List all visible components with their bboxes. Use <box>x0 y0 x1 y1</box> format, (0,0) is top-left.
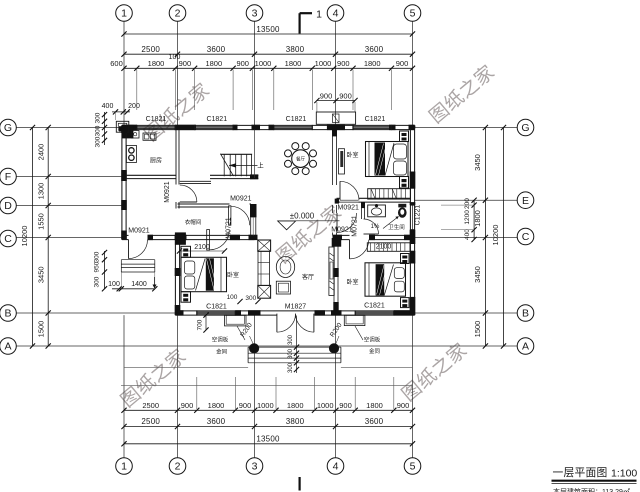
svg-text:G: G <box>521 122 529 134</box>
svg-text:1550: 1550 <box>37 213 46 230</box>
stairs <box>223 154 225 176</box>
axis4 wall <box>332 130 334 185</box>
svg-text:C1821: C1821 <box>364 302 385 309</box>
svg-text:±0.000: ±0.000 <box>290 212 315 221</box>
left small dims 300 <box>104 112 106 145</box>
svg-text:300: 300 <box>245 295 256 302</box>
nightstands bedroom2 <box>400 131 409 142</box>
svg-text:200: 200 <box>128 103 140 110</box>
left steps dims <box>104 251 106 289</box>
svg-text:M0921: M0921 <box>128 228 150 235</box>
svg-text:400: 400 <box>464 229 471 240</box>
svg-text:700: 700 <box>197 319 204 330</box>
svg-text:300: 300 <box>95 136 102 147</box>
bottom dimension rows <box>124 409 413 411</box>
svg-text:300: 300 <box>95 112 102 123</box>
svg-text:3600: 3600 <box>207 45 226 54</box>
svg-text:1: 1 <box>121 461 127 473</box>
bay dimension 900 900 <box>317 100 355 102</box>
svg-text:4: 4 <box>333 8 339 20</box>
svg-text:金同: 金同 <box>369 347 381 355</box>
svg-text:900: 900 <box>320 91 333 100</box>
door M0921 bedroom2 (E wall) <box>339 181 341 200</box>
svg-text:上: 上 <box>257 161 264 170</box>
svg-text:900: 900 <box>179 59 192 68</box>
svg-text:一层平面图: 一层平面图 <box>553 466 608 479</box>
dining table <box>292 150 310 168</box>
svg-text:卧室: 卧室 <box>346 278 358 286</box>
aircon slab right <box>344 315 365 325</box>
axis4 lower wall <box>333 240 335 311</box>
aircon slab left <box>225 315 247 326</box>
svg-text:1500: 1500 <box>473 321 482 338</box>
top-left dims 400 200 <box>112 111 130 113</box>
svg-text:C1821: C1821 <box>286 116 307 123</box>
door M0921 kitchen (x2 wall) <box>180 201 197 203</box>
svg-text:300: 300 <box>288 348 294 359</box>
svg-text:空调板: 空调板 <box>212 336 229 344</box>
right dimension columns <box>473 200 475 239</box>
bay box at axis 4 <box>316 112 355 124</box>
svg-text:空调板: 空调板 <box>364 336 381 344</box>
flue box top-left <box>116 121 129 132</box>
left dimension columns <box>47 128 49 347</box>
svg-text:M0921: M0921 <box>164 181 171 203</box>
svg-text:C1821: C1821 <box>146 116 167 123</box>
kitchen right wall <box>175 130 177 185</box>
svg-text:1800: 1800 <box>148 59 165 68</box>
svg-text:C1821: C1821 <box>365 116 386 123</box>
svg-text:2100: 2100 <box>194 244 210 251</box>
svg-text:1%: 1% <box>371 224 380 230</box>
svg-text:900: 900 <box>239 401 252 410</box>
svg-text:3600: 3600 <box>207 417 226 426</box>
svg-text:B: B <box>522 308 529 320</box>
svg-text:金同: 金同 <box>216 348 228 356</box>
desk bedroom2 <box>339 149 345 174</box>
svg-text:C: C <box>522 231 530 243</box>
svg-text:5: 5 <box>410 8 416 20</box>
svg-text:M0721: M0721 <box>352 215 359 237</box>
section mark bottom <box>299 477 301 491</box>
svg-text:D: D <box>4 200 12 212</box>
svg-text:G: G <box>4 122 12 134</box>
svg-text:1800: 1800 <box>205 59 222 68</box>
svg-text:2400: 2400 <box>37 144 46 161</box>
svg-text:1800: 1800 <box>208 401 225 410</box>
svg-text:1800: 1800 <box>473 210 482 227</box>
svg-text:1300: 1300 <box>37 183 46 200</box>
svg-text:300: 300 <box>94 276 101 287</box>
svg-text:3: 3 <box>252 8 258 20</box>
svg-text:13500: 13500 <box>256 435 280 444</box>
door M1827 main entrance <box>276 314 278 333</box>
top wall + C1821 windows <box>122 124 415 126</box>
svg-text:C1821: C1821 <box>206 303 227 310</box>
svg-text:1800: 1800 <box>287 401 304 410</box>
ground line 1 <box>124 366 248 368</box>
svg-text:M1827: M1827 <box>285 303 307 310</box>
bed bottom-right bedroom <box>365 263 406 296</box>
svg-text:1500: 1500 <box>37 321 46 338</box>
svg-text:C1821: C1821 <box>206 116 227 123</box>
svg-text:卧室: 卧室 <box>346 151 358 159</box>
outside steps left <box>121 259 155 261</box>
bed bottom-left bedroom <box>181 257 227 291</box>
bottom wall + windows <box>175 310 414 312</box>
svg-text:1200: 1200 <box>464 210 471 225</box>
axis grid lines <box>123 22 125 126</box>
top dimension rows <box>124 33 413 35</box>
svg-text:1000: 1000 <box>315 59 332 68</box>
axis3 wall D-C <box>250 204 257 217</box>
svg-text:1:100: 1:100 <box>611 468 637 480</box>
svg-text:M0921: M0921 <box>337 204 359 211</box>
svg-text:2500: 2500 <box>141 45 160 54</box>
svg-text:1800: 1800 <box>285 59 302 68</box>
svg-text:卧室: 卧室 <box>227 271 239 279</box>
toilet fixtures <box>368 205 386 217</box>
svg-text:300: 300 <box>288 334 294 345</box>
svg-text:厨房: 厨房 <box>150 157 162 165</box>
svg-text:B: B <box>4 308 11 320</box>
section mark top <box>299 13 301 33</box>
door M0921 bedroom3 (C wall) <box>349 240 351 259</box>
kitchen stove and sink <box>126 145 136 162</box>
door M0921 corridor (axis4 wall) <box>336 213 338 233</box>
svg-text:900: 900 <box>396 59 409 68</box>
svg-text:2: 2 <box>175 461 181 473</box>
svg-text:A: A <box>4 341 11 353</box>
svg-text:C: C <box>4 233 12 245</box>
svg-text:A: A <box>522 341 529 353</box>
svg-text:2100: 2100 <box>376 243 392 250</box>
left lower wall axis2 <box>174 235 176 315</box>
svg-text:3450: 3450 <box>37 266 46 283</box>
svg-text:900: 900 <box>339 401 352 410</box>
svg-text:M0921: M0921 <box>331 227 353 234</box>
porch slab and steps <box>248 346 341 348</box>
door M0921 cloakroom (D wall) <box>229 206 231 225</box>
door M0721 toilet <box>364 233 379 235</box>
F wall + landing strip <box>126 174 176 176</box>
svg-text:2: 2 <box>175 8 181 20</box>
svg-text:3600: 3600 <box>365 45 384 54</box>
svg-text:2500: 2500 <box>142 401 159 410</box>
svg-text:1000: 1000 <box>317 401 334 410</box>
porch column right <box>329 344 338 353</box>
dim 700 left <box>205 315 207 330</box>
porch step dims 300 <box>296 316 298 374</box>
svg-text:300: 300 <box>288 362 294 373</box>
svg-text:400: 400 <box>102 103 114 110</box>
svg-text:M0921: M0921 <box>230 196 252 203</box>
right wall axis5 + C1221 window <box>409 125 411 315</box>
C axis wall <box>122 234 129 236</box>
svg-text:E: E <box>522 195 529 207</box>
svg-text:100: 100 <box>108 281 120 288</box>
svg-text:4: 4 <box>333 461 339 473</box>
svg-text:900: 900 <box>236 59 249 68</box>
svg-text:600: 600 <box>110 59 123 68</box>
svg-text:100: 100 <box>169 54 181 61</box>
living room sofa and table <box>258 240 271 251</box>
svg-text:餐厅: 餐厅 <box>296 156 305 163</box>
nightstands bedroom1 <box>181 246 191 257</box>
svg-text:客厅: 客厅 <box>302 273 314 281</box>
nightstands bedroom3 <box>401 254 410 264</box>
svg-text:900: 900 <box>397 401 410 410</box>
ground line 2 <box>121 385 413 387</box>
door bedroom1 leaf+arc <box>207 230 210 250</box>
svg-text:3450: 3450 <box>473 154 482 171</box>
left wall axis1 <box>121 125 123 239</box>
svg-text:950: 950 <box>94 261 101 272</box>
svg-text:1400: 1400 <box>131 281 147 288</box>
svg-text:1: 1 <box>121 8 127 20</box>
svg-text:10200: 10200 <box>491 225 500 246</box>
svg-text:900: 900 <box>339 91 352 100</box>
svg-text:3450: 3450 <box>473 266 482 283</box>
svg-text:5: 5 <box>410 461 416 473</box>
svg-text:100: 100 <box>227 294 238 301</box>
D wall <box>178 203 230 205</box>
porch column left <box>250 344 259 353</box>
svg-text:3600: 3600 <box>365 417 384 426</box>
E wall <box>337 197 341 199</box>
svg-text:3800: 3800 <box>286 45 305 54</box>
svg-text:2500: 2500 <box>141 417 160 426</box>
svg-text:1000: 1000 <box>255 59 272 68</box>
svg-text:卫生间: 卫生间 <box>388 223 405 231</box>
svg-text:1800: 1800 <box>364 59 381 68</box>
svg-text:C1221: C1221 <box>415 205 422 226</box>
wardrobe bedroom2 <box>368 189 411 199</box>
svg-text:衣帽间: 衣帽间 <box>185 218 202 226</box>
svg-text:1800: 1800 <box>366 401 383 410</box>
svg-text:300: 300 <box>95 125 102 136</box>
axis bubbles <box>116 5 133 22</box>
toilet left wall <box>361 202 363 219</box>
svg-text:1000: 1000 <box>257 401 274 410</box>
svg-text:3: 3 <box>252 461 258 473</box>
svg-text:10200: 10200 <box>20 226 29 247</box>
svg-text:F: F <box>5 171 11 183</box>
svg-text:900: 900 <box>181 401 194 410</box>
bed top-right bedroom <box>366 142 409 177</box>
svg-text:300: 300 <box>94 251 101 262</box>
svg-text:3800: 3800 <box>286 417 305 426</box>
svg-text:1: 1 <box>316 9 322 21</box>
wardrobe bedroom3 <box>367 243 410 252</box>
door M0921 outside (C wall) <box>128 240 130 259</box>
svg-text:200: 200 <box>464 198 471 209</box>
svg-text:13500: 13500 <box>256 25 280 34</box>
svg-text:900: 900 <box>337 59 350 68</box>
